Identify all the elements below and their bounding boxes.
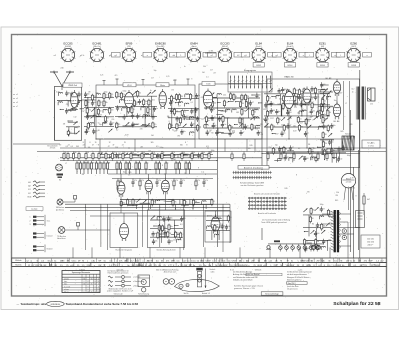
svg-text:1k: 1k (163, 152, 165, 154)
svg-text:5n: 5n (325, 241, 327, 243)
svg-text:R45: R45 (128, 172, 131, 174)
svg-text:(ZF): (ZF) (127, 46, 131, 48)
svg-text:2W: 2W (184, 265, 187, 267)
terminal strip caption (26, 207, 43, 211)
svg-text:220: 220 (312, 210, 315, 212)
svg-text:Anschluss: Anschluss (57, 237, 65, 240)
svg-text:2n7: 2n7 (93, 133, 96, 135)
tube V4 EABC80 demod (203, 89, 212, 110)
svg-text:EL 84: EL 84 (334, 121, 340, 123)
svg-text:470: 470 (140, 128, 143, 130)
svg-text:0,5: 0,5 (206, 146, 208, 148)
svg-text:25: 25 (85, 163, 87, 165)
svg-text:2W: 2W (98, 265, 101, 267)
preamp parts row (117, 179, 208, 191)
svg-text:220: 220 (313, 158, 316, 160)
trimmer marks above IF box (103, 81, 105, 86)
audio box inner verticals (343, 81, 345, 130)
svg-text:100: 100 (183, 218, 186, 220)
svg-text:220: 220 (316, 89, 319, 91)
tube V11 EM84 indicator (120, 221, 129, 241)
svg-text:2n: 2n (324, 114, 326, 116)
svg-text:Netzdr.: Netzdr. (345, 133, 351, 136)
svg-text:Die Tastenkontakte sind in Ste: Die Tastenkontakte sind in Stellung (262, 219, 290, 222)
svg-text:C12: C12 (351, 88, 354, 90)
svg-text:4k7: 4k7 (367, 199, 370, 201)
svg-text:470: 470 (81, 111, 84, 113)
svg-text:(End II): (End II) (287, 46, 294, 48)
svg-text:2k2: 2k2 (209, 152, 212, 154)
dial drive shaft assembly (196, 268, 206, 288)
svg-text:0,1: 0,1 (173, 97, 175, 99)
svg-text:Ansicht von vorn: Ansicht von vorn (164, 271, 177, 274)
svg-text:5k6: 5k6 (151, 135, 154, 137)
svg-text:5n: 5n (167, 163, 169, 165)
svg-text:47k: 47k (158, 180, 161, 182)
svg-text:47: 47 (139, 115, 141, 117)
svg-text:0,5: 0,5 (156, 146, 158, 148)
terminal strip group 4 (33, 245, 53, 253)
svg-text:100: 100 (316, 233, 319, 235)
svg-text:GW 405: GW 405 (255, 269, 262, 271)
svg-text:330: 330 (99, 152, 102, 154)
svg-text:heiz.: heiz. (64, 281, 68, 283)
svg-text:0,1: 0,1 (100, 102, 102, 104)
svg-text:8: 8 (208, 133, 209, 135)
svg-text:470: 470 (206, 103, 209, 105)
component cluster I (120, 198, 215, 209)
svg-text:EZ80: EZ80 (350, 41, 357, 45)
svg-text:10n: 10n (300, 91, 303, 93)
svg-text:30k: 30k (310, 116, 313, 118)
tube V10 ECC83b (161, 178, 169, 195)
svg-text:50: 50 (70, 132, 72, 134)
svg-text:(De+NF): (De+NF) (157, 46, 165, 48)
svg-text:Tastenband-Erspar.: siehe: Tastenband-Erspar.: siehe (21, 302, 47, 306)
svg-text:30k: 30k (323, 225, 326, 227)
svg-text:0,25: 0,25 (70, 95, 73, 97)
svg-text:0,5: 0,5 (71, 146, 73, 148)
svg-text:1k5: 1k5 (293, 126, 296, 128)
svg-text:30k: 30k (194, 201, 197, 203)
svg-text:2n: 2n (197, 109, 199, 111)
connector circle mid-left (56, 164, 63, 171)
svg-text:ZF-V: ZF-V (127, 85, 132, 87)
svg-text:5k: 5k (186, 202, 188, 204)
svg-text:6,3: 6,3 (164, 201, 167, 203)
tube socket EL84 (241, 41, 276, 67)
component cluster C (168, 93, 201, 135)
link UKW to IF (82, 99, 96, 101)
svg-text:10k: 10k (88, 147, 91, 149)
svg-text:50p: 50p (135, 104, 138, 106)
svg-text:2: 2 (30, 220, 31, 222)
svg-text:500: 500 (296, 103, 299, 105)
svg-text:10k: 10k (352, 187, 355, 189)
svg-text:2n7: 2n7 (178, 106, 181, 108)
svg-text:10n: 10n (68, 110, 71, 112)
svg-text:47k: 47k (175, 180, 178, 182)
svg-text:a9: a9 (16, 98, 18, 100)
wire bus H2 left stub (13, 143, 60, 145)
svg-text:5n: 5n (134, 115, 136, 117)
svg-text:EM84: EM84 (190, 41, 198, 45)
svg-text:30k: 30k (105, 102, 108, 104)
svg-text:5k6: 5k6 (96, 93, 99, 95)
svg-text:R17: R17 (270, 118, 273, 120)
svg-text:220: 220 (324, 134, 327, 136)
svg-text:500: 500 (218, 132, 221, 134)
svg-text:1n: 1n (184, 66, 186, 68)
svg-text:10n: 10n (258, 94, 261, 96)
svg-text:8: 8 (186, 145, 187, 147)
svg-text:90: 90 (91, 291, 93, 293)
svg-text:0,5: 0,5 (154, 124, 156, 126)
svg-text:0,1: 0,1 (175, 110, 177, 112)
svg-text:erst Netzstecker ziehen und C8: erst Netzstecker ziehen und C88 (233, 276, 258, 279)
selector inner marks (358, 212, 363, 214)
svg-text:Ansicht auf Druckseite: Ansicht auf Druckseite (258, 212, 276, 215)
band row label boxes (12, 258, 26, 262)
svg-text:0,1: 0,1 (133, 109, 135, 111)
svg-text:150 220: 150 220 (367, 242, 374, 244)
mains selector box (356, 211, 365, 228)
svg-text:(End I): (End I) (256, 46, 262, 48)
svg-text:50: 50 (235, 96, 237, 98)
svg-text:L7: L7 (345, 103, 347, 105)
svg-text:2n7: 2n7 (286, 108, 289, 110)
svg-text:10n: 10n (317, 96, 320, 98)
svg-text:50p: 50p (154, 70, 157, 72)
svg-text:1,2: 1,2 (87, 281, 89, 283)
svg-text:500: 500 (306, 158, 309, 160)
filter stage box (147, 210, 184, 247)
svg-text:22: 22 (122, 145, 124, 147)
svg-text:0,1: 0,1 (287, 126, 289, 128)
svg-text:50p: 50p (207, 120, 210, 122)
svg-text:a5: a5 (16, 94, 18, 96)
svg-text:0,1: 0,1 (213, 201, 215, 203)
svg-text:0,1: 0,1 (129, 201, 131, 203)
svg-text:5n: 5n (172, 129, 174, 131)
svg-text:2W: 2W (251, 261, 254, 263)
svg-text:1n: 1n (158, 95, 160, 97)
svg-text:0,1: 0,1 (306, 241, 308, 243)
svg-text:0,5: 0,5 (311, 98, 313, 100)
svg-text:100p: 100p (347, 155, 351, 157)
svg-text:R45: R45 (263, 119, 266, 121)
resistor rail upper row (63, 152, 210, 161)
component cluster UKWtop (57, 91, 84, 115)
svg-text:470: 470 (92, 163, 95, 165)
svg-text:2n7: 2n7 (243, 127, 246, 129)
svg-text:47k: 47k (182, 180, 185, 182)
resistor rail group R20-R33 (76, 161, 78, 163)
svg-text:305: 305 (180, 145, 183, 147)
svg-text:30k: 30k (148, 114, 151, 116)
tube V7 EL84 output I (333, 79, 340, 96)
tube socket ECH81 (83, 41, 112, 62)
svg-text:8: 8 (355, 195, 356, 197)
svg-text:0,5: 0,5 (71, 100, 73, 102)
svg-text:Wellenb.: Wellenb. (15, 260, 22, 262)
svg-text:50: 50 (100, 110, 102, 112)
power transformer T2 (331, 210, 341, 252)
svg-text:0,5: 0,5 (77, 94, 79, 96)
dial cord path (175, 279, 220, 291)
svg-text:10n: 10n (253, 126, 256, 128)
svg-text:50: 50 (254, 111, 256, 113)
svg-text:5n: 5n (278, 111, 280, 113)
svg-text:5k: 5k (275, 149, 277, 151)
tube V9 ECC83a (145, 178, 152, 195)
wire vertical V3 (217, 98, 219, 247)
lamp pair end (311, 245, 315, 249)
svg-text:0,25: 0,25 (100, 75, 103, 77)
junctions lower mid (85, 207, 86, 208)
bleeder resistor right (363, 193, 370, 215)
component cluster D (204, 93, 263, 137)
svg-text:2n: 2n (89, 116, 91, 118)
wire bus H1 (96, 138, 351, 140)
svg-text:470: 470 (300, 127, 303, 129)
svg-text:5k: 5k (324, 100, 326, 102)
svg-text:Rohrenfassung: Rohrenfassung (138, 294, 149, 296)
svg-text:50p: 50p (278, 150, 281, 152)
svg-text:90: 90 (94, 284, 96, 286)
svg-text:Toleranz gilt: Toleranz gilt (113, 292, 123, 295)
annotation labels main band (56, 66, 356, 206)
svg-text:10n: 10n (170, 217, 173, 219)
dial lamp chain bus (268, 243, 324, 245)
svg-text:5n: 5n (212, 118, 214, 120)
svg-text:L7: L7 (284, 96, 286, 98)
svg-text:220: 220 (110, 109, 113, 111)
svg-text:UKW: UKW (138, 265, 143, 267)
wire preamp row (112, 178, 213, 180)
svg-text:L7: L7 (65, 163, 67, 165)
svg-text:10n: 10n (170, 226, 173, 228)
lamp chain label (274, 240, 280, 242)
svg-text:6: 6 (98, 284, 99, 286)
svg-text:10n: 10n (145, 101, 148, 103)
dial pulleys (179, 284, 183, 288)
svg-text:47k: 47k (141, 180, 144, 182)
svg-text:M: M (287, 261, 289, 263)
legend symbols (107, 269, 144, 295)
svg-text:Lautspr.: Lautspr. (31, 208, 38, 211)
svg-text:80: 80 (59, 180, 61, 182)
wire vertical V5 (353, 167, 355, 258)
svg-text:Tastenband-Kundendienst siehe: Tastenband-Kundendienst siehe Serie 7.58… (66, 302, 139, 306)
svg-text:0,5: 0,5 (269, 97, 271, 99)
svg-text:47k: 47k (324, 143, 327, 145)
svg-text:5n: 5n (147, 163, 149, 165)
svg-text:gemessen, Toleranz +- 15%: gemessen, Toleranz +- 15% (234, 287, 255, 290)
svg-text:entladen, da sonst Gefahr: entladen, da sonst Gefahr (233, 278, 253, 281)
under-box number row (59, 142, 208, 148)
svg-text:5n: 5n (267, 104, 269, 106)
svg-text:2n: 2n (273, 103, 275, 105)
component cluster boxK (206, 215, 232, 240)
switch contact matrix (248, 193, 290, 225)
svg-text:2n7: 2n7 (213, 72, 216, 74)
fuse and switch cluster wires (322, 213, 334, 215)
svg-text:L7: L7 (116, 130, 118, 132)
svg-text:0,5: 0,5 (258, 151, 260, 153)
svg-text:47k: 47k (273, 126, 276, 128)
svg-text:1n: 1n (128, 175, 130, 177)
boxed service note (261, 292, 283, 295)
svg-text:C12: C12 (294, 107, 297, 109)
svg-text:Ansicht auf Lotseite der Schal: Ansicht auf Lotseite der Schalter (254, 193, 280, 196)
dial lamps L1-L7 (279, 244, 281, 246)
valve holder drawing (138, 275, 150, 298)
svg-text:2W: 2W (147, 261, 150, 263)
component cluster N (320, 123, 336, 156)
component cluster B (115, 90, 158, 130)
svg-text:47: 47 (323, 208, 325, 210)
svg-text:R45: R45 (109, 96, 112, 98)
svg-text:W3: W3 (177, 135, 180, 137)
component cluster ELcol (318, 82, 333, 119)
svg-text:470: 470 (113, 152, 116, 154)
svg-text:47k: 47k (177, 233, 180, 235)
pushbutton aggregate diagram title (238, 166, 269, 170)
svg-text:30k: 30k (307, 120, 310, 122)
svg-text:305: 305 (151, 142, 154, 144)
svg-text:47: 47 (165, 218, 167, 220)
component cluster UKWint (66, 120, 80, 136)
UKW label (63, 83, 82, 87)
svg-text:25: 25 (101, 163, 103, 165)
svg-text:29 305: 29 305 (50, 148, 56, 150)
svg-text:Ton-Abn.: Ton-Abn. (367, 142, 375, 145)
svg-text:30k: 30k (203, 66, 206, 68)
svg-text:L7: L7 (184, 173, 186, 175)
svg-text:30k: 30k (313, 148, 316, 150)
svg-text:1,5: 1,5 (74, 260, 76, 262)
svg-text:215: 215 (83, 279, 86, 281)
component cluster boxJ (150, 216, 186, 245)
svg-text:0,5: 0,5 (134, 201, 136, 203)
svg-text:0,25: 0,25 (288, 158, 291, 160)
svg-text:Rundfunk Klangtaste: Rundfunk Klangtaste (115, 249, 132, 252)
svg-text:L7: L7 (256, 129, 258, 131)
svg-text:Service-Unterlage: Service-Unterlage (265, 292, 279, 295)
svg-text:8: 8 (90, 142, 91, 144)
wire vertical V4 (350, 110, 352, 252)
svg-text:0,1: 0,1 (214, 126, 216, 128)
svg-text:C41: C41 (223, 94, 226, 96)
svg-text:85: 85 (91, 284, 93, 286)
svg-text:470: 470 (152, 152, 155, 154)
svg-text:0,5: 0,5 (299, 118, 301, 120)
svg-text:EABC 80: EABC 80 (285, 76, 295, 79)
wire drops to table (72, 247, 74, 258)
component cluster H (99, 153, 213, 159)
UKW tuner box (54, 87, 81, 141)
svg-text:50: 50 (139, 92, 141, 94)
svg-text:bei Stereo: bei Stereo (56, 209, 64, 212)
svg-text:8: 8 (83, 142, 84, 144)
svg-text:470: 470 (287, 111, 290, 113)
tube V3 EF89 (159, 89, 166, 109)
svg-text:5n: 5n (283, 133, 285, 135)
svg-text:Ansicht d. Drucktasten: Ansicht d. Drucktasten (244, 166, 263, 169)
svg-text:5k6: 5k6 (173, 159, 176, 161)
svg-text:(NF-V): (NF-V) (222, 46, 228, 48)
wire bus H9 (262, 153, 360, 155)
svg-text:5n: 5n (150, 90, 152, 92)
svg-text:5k: 5k (192, 95, 194, 97)
svg-text:a12: a12 (169, 265, 172, 267)
svg-text:25: 25 (78, 163, 80, 165)
svg-text:Schaltplan für 22 58: Schaltplan für 22 58 (333, 301, 381, 307)
svg-text:47k: 47k (205, 180, 208, 182)
wire vertical V6 (357, 150, 359, 250)
svg-text:Taste UKW gedruckt gezeichnet: Taste UKW gedruckt gezeichnet (261, 221, 287, 224)
svg-text:47k: 47k (201, 97, 204, 99)
svg-text:5k6: 5k6 (202, 72, 205, 74)
caption bottom left with oval stamp (17, 301, 139, 306)
svg-text:100p: 100p (320, 204, 324, 206)
svg-text:305: 305 (76, 146, 79, 148)
svg-text:100p: 100p (160, 147, 164, 149)
junction dots on buses (95, 138, 96, 139)
svg-text:1,2: 1,2 (87, 284, 89, 286)
component cluster E (264, 86, 332, 137)
svg-text:220: 220 (76, 104, 79, 106)
svg-text:5k: 5k (241, 119, 243, 121)
svg-text:6,3: 6,3 (278, 104, 281, 106)
svg-text:100: 100 (339, 158, 342, 160)
phono jack TB (57, 223, 110, 241)
wire bus H4 (37, 151, 386, 153)
svg-text:Rohrenvoltmeter gemessen: Rohrenvoltmeter gemessen (108, 272, 129, 275)
svg-text:EL 84: EL 84 (326, 78, 332, 80)
svg-text:(Mi+Os): (Mi+Os) (93, 46, 101, 48)
svg-text:R45: R45 (250, 145, 253, 147)
extra vertical drops (84, 139, 86, 148)
svg-text:100p: 100p (161, 103, 165, 105)
svg-text:10n: 10n (155, 241, 158, 243)
terminal strip group 2 (30, 215, 51, 226)
svg-text:2n: 2n (119, 107, 121, 109)
tube socket ECC85 (54, 41, 84, 62)
wire socket-row link (205, 52, 216, 54)
indicator stage box (110, 213, 138, 247)
svg-text:a3: a3 (16, 102, 18, 104)
svg-text:220: 220 (111, 119, 114, 121)
svg-text:Netzteil: Netzteil (47, 248, 53, 251)
svg-text:1k: 1k (65, 152, 67, 154)
wire bus H6 resistor rail (60, 160, 217, 162)
svg-text:0,25: 0,25 (303, 157, 306, 159)
svg-text:470: 470 (350, 124, 353, 126)
svg-text:25: 25 (127, 163, 129, 165)
svg-text:L7: L7 (170, 113, 172, 115)
svg-text:30k: 30k (213, 102, 216, 104)
svg-text:240 V~: 240 V~ (367, 245, 374, 247)
svg-text:215: 215 (97, 289, 100, 291)
svg-text:0,1: 0,1 (261, 134, 263, 136)
svg-text:1k: 1k (124, 152, 126, 154)
svg-text:Samtliche Spannungen gegen Cha: Samtliche Spannungen gegen Chassis (234, 284, 263, 287)
wire vertical V3b (261, 93, 263, 170)
svg-text:22: 22 (68, 145, 70, 147)
svg-text:2n: 2n (247, 126, 249, 128)
